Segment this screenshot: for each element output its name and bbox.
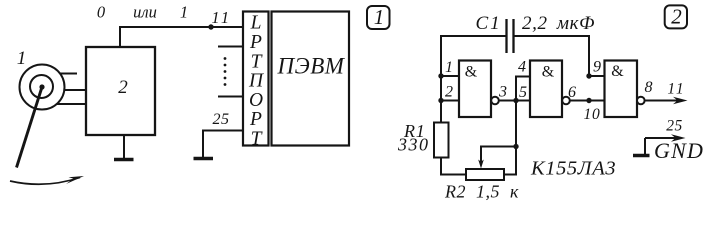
node junction pin10/bus <box>586 98 591 103</box>
label 0 или 1 <box>97 3 188 22</box>
svg-text:Р: Р <box>249 109 262 130</box>
block 2 (converter) <box>86 47 155 135</box>
node junction pin9 <box>586 73 591 78</box>
label GND <box>654 138 704 163</box>
svg-text:11: 11 <box>211 8 231 27</box>
wire R1 to R2 <box>441 158 466 175</box>
svg-text:2: 2 <box>671 5 682 29</box>
svg-text:П: П <box>248 71 265 92</box>
label К155ЛА3 <box>530 158 616 180</box>
wiper wire <box>481 147 516 163</box>
svg-text:2: 2 <box>445 84 453 101</box>
svg-text:0: 0 <box>97 3 106 22</box>
wire top left (C1 left lead) <box>441 36 506 76</box>
wiper arrowhead <box>478 160 484 169</box>
node junction wiper <box>513 144 518 149</box>
ground (GND) <box>633 154 650 157</box>
svg-text:Р: Р <box>249 32 262 53</box>
svg-text:1: 1 <box>374 5 385 29</box>
resistor R1 <box>434 123 449 158</box>
svg-text:8: 8 <box>645 79 653 96</box>
svg-text:Т: Т <box>251 129 263 150</box>
svg-text:2: 2 <box>118 77 128 98</box>
pin label 4 <box>518 59 526 76</box>
label C1 <box>476 13 502 34</box>
figure badge 1 <box>367 5 390 29</box>
wire sensor to block 2 (lower) <box>57 103 86 105</box>
sensor disc (item 1) outer circle <box>20 65 65 110</box>
ground (LPT pin 25) <box>194 157 214 160</box>
wire pin 9 <box>589 75 605 77</box>
label 2,2 мкФ <box>522 13 595 34</box>
ground wire below block 2 <box>123 135 125 159</box>
svg-text:С1: С1 <box>476 13 502 34</box>
label 1 (sensor) <box>17 48 27 69</box>
svg-text:1: 1 <box>445 59 453 76</box>
svg-text:&: & <box>611 63 624 80</box>
node junction pin2 <box>438 98 443 103</box>
svg-text:О: О <box>249 90 263 111</box>
wire pin 2 <box>441 100 459 102</box>
pin stub lower <box>218 96 243 98</box>
svg-text:1: 1 <box>180 3 188 22</box>
svg-text:L: L <box>250 13 262 34</box>
sensor inner circle <box>30 75 53 98</box>
svg-text:10: 10 <box>583 106 600 123</box>
wire pin 3 to pin 5 <box>499 100 530 102</box>
svg-text:5: 5 <box>519 84 527 101</box>
wire left bus to R1 <box>440 76 442 123</box>
figure badge 2 <box>665 5 687 29</box>
wire GND drop <box>644 138 646 154</box>
pin label 6 <box>568 84 576 101</box>
svg-text:&: & <box>542 64 555 81</box>
svg-text:или: или <box>133 3 157 22</box>
svg-text:330: 330 <box>397 135 430 155</box>
pin label 25 <box>213 111 230 128</box>
shaft stub (top) <box>60 73 77 75</box>
svg-text:11: 11 <box>667 81 685 98</box>
svg-text:4: 4 <box>518 59 526 76</box>
node junction pin1 <box>438 73 443 78</box>
rotation arrow (curved) <box>10 176 84 184</box>
pin label 3 <box>498 84 507 101</box>
pin label 1 <box>445 59 453 76</box>
svg-text:ПЭВМ: ПЭВМ <box>277 54 346 79</box>
wire pin 6 to pin 10 <box>570 100 605 102</box>
pin label 5 <box>519 84 527 101</box>
label ПЭВМ <box>277 54 346 79</box>
arrow pin 25 wire <box>645 134 686 141</box>
resistor R2 (trimmer) <box>466 169 504 180</box>
svg-text:6: 6 <box>568 84 576 101</box>
svg-text:К155ЛА3: К155ЛА3 <box>530 158 616 180</box>
svg-text:25: 25 <box>213 111 230 128</box>
label 330 <box>397 135 430 155</box>
dotted line of other pins <box>224 57 227 86</box>
wire pin 8 output <box>645 100 681 102</box>
shaft needle line <box>17 87 43 168</box>
svg-text:GND: GND <box>654 138 704 163</box>
pin label 9 <box>593 59 601 76</box>
svg-text:3: 3 <box>498 84 507 101</box>
svg-text:Т: Т <box>251 51 263 72</box>
wire pin 1 <box>441 75 459 77</box>
svg-text:25: 25 <box>666 118 683 135</box>
pin label 8 <box>645 79 653 96</box>
wire block2 to LPT pin 11 <box>120 27 243 47</box>
wire R2 right to bus <box>504 101 516 175</box>
wire sensor to block 2 (upper) <box>64 89 86 91</box>
sensor axis dot <box>39 84 44 89</box>
svg-text:9: 9 <box>593 59 601 76</box>
wire pin 25 to ground <box>203 131 243 158</box>
svg-text:R2 1,5 к: R2 1,5 к <box>444 182 519 202</box>
pin label 11 <box>211 8 231 27</box>
pin label 11 <box>667 81 685 98</box>
pin label 10 <box>583 106 600 123</box>
NAND gate DD1.1 <box>459 61 499 118</box>
NAND gate DD1.2 <box>530 61 570 118</box>
pin stub upper <box>218 46 243 48</box>
arrow to pin 11 <box>673 97 688 104</box>
label 2 (block) <box>118 77 128 98</box>
NAND gate DD1.3 <box>605 61 645 118</box>
computer box ПЭВМ <box>272 12 350 146</box>
svg-text:&: & <box>465 64 478 81</box>
node junction at pin 11 <box>208 24 213 29</box>
node junction pin5 branch <box>513 98 518 103</box>
svg-text:1: 1 <box>17 48 27 69</box>
capacitor C1 plates <box>507 19 514 53</box>
wire branch to pin 4 <box>516 77 530 101</box>
ground (block 2) <box>114 158 134 161</box>
label R2 1,5 к <box>444 182 519 202</box>
label R1 <box>403 121 426 141</box>
wire top right (C1 right lead) <box>514 36 590 76</box>
pin label 2 <box>445 84 453 101</box>
LPT port box <box>243 12 269 146</box>
svg-text:2,2 мкФ: 2,2 мкФ <box>522 13 595 34</box>
LPT letters <box>248 13 265 150</box>
pin label 25 (GND) <box>666 118 683 135</box>
